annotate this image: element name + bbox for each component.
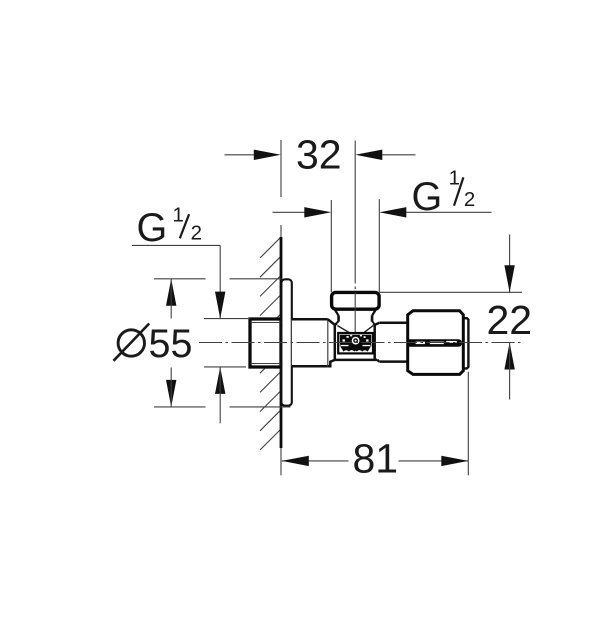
nut slot white dashes xyxy=(416,342,425,345)
chamfer left top xyxy=(328,319,335,325)
emblem white specks xyxy=(343,339,345,341)
svg-text:2: 2 xyxy=(191,222,202,245)
wall extension line below (dim 81 left ext) xyxy=(280,448,282,475)
dimension 22 xyxy=(379,291,522,293)
thread top extension xyxy=(204,318,250,320)
svg-text:2: 2 xyxy=(464,188,475,211)
svg-text:G: G xyxy=(412,175,443,219)
svg-text:1: 1 xyxy=(173,204,184,227)
G1/2 left lower arrow xyxy=(215,367,225,394)
dimension Ø55 xyxy=(154,278,206,280)
wall section line xyxy=(280,237,283,448)
dimension G1/2 top xyxy=(273,211,306,213)
thread bottom extension xyxy=(204,366,246,368)
wall extension line above (dim 32 left ext) xyxy=(280,140,282,197)
knurled outlet nut collar xyxy=(463,318,468,368)
GROHE emblem xyxy=(338,333,373,353)
emblem bottom scallop xyxy=(341,346,371,351)
svg-text:55: 55 xyxy=(149,322,193,366)
svg-text:81: 81 xyxy=(353,436,399,482)
top outlet cap nut G1/2 xyxy=(332,292,380,309)
top outlet neck xyxy=(337,315,340,321)
svg-text:1: 1 xyxy=(449,167,460,190)
body internal cone lines xyxy=(337,326,350,334)
white fill of neck xyxy=(336,309,375,325)
thread root lines xyxy=(251,322,281,324)
knurled outlet nut xyxy=(408,311,464,375)
chamfer left bottom xyxy=(328,360,335,366)
left body cylinder xyxy=(292,319,328,366)
svg-text:22: 22 xyxy=(487,297,533,343)
valve body xyxy=(335,325,375,360)
top outlet flare xyxy=(335,322,339,325)
wall flange escutcheon xyxy=(281,279,291,405)
emblem center circle xyxy=(352,337,360,345)
svg-text:32: 32 xyxy=(296,132,342,178)
right outlet cylinder xyxy=(379,323,407,362)
dimension 81 xyxy=(282,460,349,462)
vertical centerline / axis, also dim 32 right ext xyxy=(354,141,356,284)
svg-text:G: G xyxy=(137,206,168,250)
top outlet taper xyxy=(335,309,339,315)
dimension 32 xyxy=(225,154,256,156)
emblem split dashes xyxy=(341,345,349,347)
horizontal centerline xyxy=(199,342,524,344)
threaded inlet G1/2 xyxy=(250,319,281,367)
nut slot xyxy=(408,339,462,347)
wall hatching xyxy=(260,237,281,450)
